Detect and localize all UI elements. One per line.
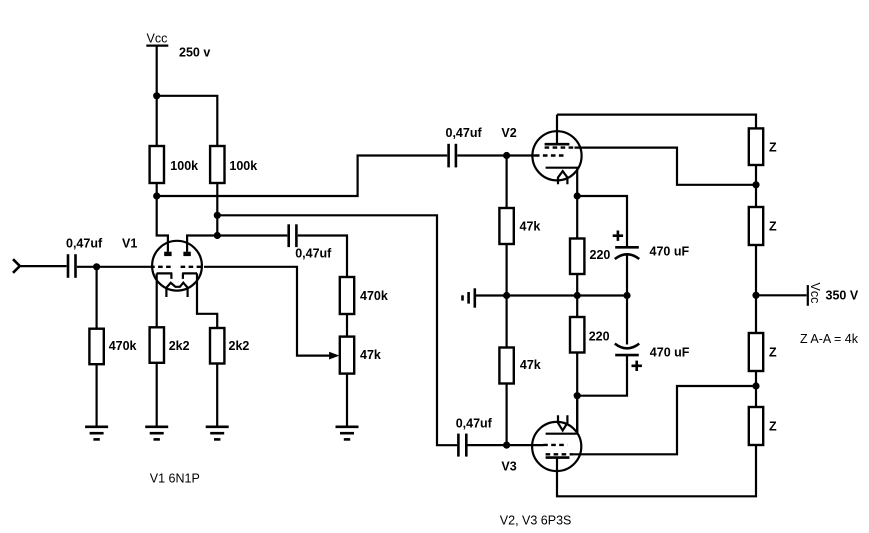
wire V3 cap junction to grid [468,444,544,446]
anode V2 (plate bar) [545,143,570,146]
heater V1 [166,283,187,297]
resistor 470k (input) [89,329,136,365]
cathode V3 [546,396,578,434]
wire rail to bottom cap [626,296,628,345]
svg-text:V2: V2 [501,126,516,140]
capacitor 0,47uf (V2 coupling) [446,126,483,167]
wire V2 anode stem [556,115,558,145]
svg-text:V2, V3 6P3S: V2, V3 6P3S [500,514,572,528]
tube V3 envelope [532,422,581,471]
triode V1 envelope [152,241,202,291]
anode b (V1 right plate) [183,252,190,256]
input connector [13,259,20,273]
wire V2 screen to UL tap [575,148,757,185]
svg-text:Z: Z [769,346,777,360]
wire Z3-Z4 [755,371,757,407]
wire left 100k bottom [156,183,158,196]
svg-text:0,47uf: 0,47uf [456,417,493,431]
chassis ground (middle) [463,288,475,307]
power Vcc 250v terminal [146,32,210,60]
wire rail to lower 47k [506,296,508,348]
wire 470k-47k [346,314,348,337]
wire 220 to rail [576,274,578,296]
svg-text:47k: 47k [360,348,381,362]
node rail-220 [574,292,581,299]
wire V2 grid column [506,156,508,209]
svg-text:470k: 470k [109,339,137,353]
svg-text:350 V: 350 V [826,289,859,303]
wire 47k to V3 grid [506,384,508,446]
resistor 470k (feedback) [340,277,388,314]
cathode b (V1 right) [182,273,197,279]
wire V2 cathode to top cap [577,196,627,246]
wire cathode b to 2k2 [197,273,217,328]
svg-text:470 uF: 470 uF [650,346,690,360]
wire V2 anode to Z1 [557,115,756,129]
svg-text:Z: Z [769,420,777,434]
winding Z1 [749,128,777,165]
resistor 47k (V3 grid) [499,348,540,384]
wire left anode riser [157,196,168,252]
wire Vcc top rail [157,96,218,146]
svg-text:Z: Z [769,220,777,234]
wire to 470k grid resistor [95,267,97,329]
svg-text:470 uF: 470 uF [650,244,690,258]
node rail-cap [623,292,630,299]
svg-text:V1: V1 [122,237,137,251]
wire 47k to ground [346,374,348,426]
capacitor 0,47uf (feedback) [289,224,332,260]
resistor 220 (V3 cathode) [570,317,610,353]
wire 47k to rail [506,244,508,296]
heater V3 [558,415,567,430]
svg-text:Z: Z [769,141,777,155]
wire Z2-Z3 [755,245,757,333]
grid V2 (dashed) [535,154,566,156]
resistor 47k (feedback) [340,337,381,374]
wire cap to 470k [298,236,347,278]
anode V3 (plate bar) [546,456,570,459]
wire center tap to Vcc [756,294,807,296]
resistor 2k2 (right) [210,328,249,364]
wire cap to V1 grid [77,266,150,268]
node left anode junction [153,192,160,199]
node right anode junction [214,232,221,239]
wire V2 cathode column [576,196,578,239]
wire 2k2 to ground [156,363,158,426]
anode a (V1 left plate) [164,252,171,256]
resistor 100k (left) [150,146,199,183]
power Vcc 350V terminal [808,283,859,306]
node center tap [752,292,759,299]
svg-text:100k: 100k [229,159,257,173]
node rail-47k [503,292,510,299]
wire cap to V2 grid [457,154,535,156]
node V3 grid junction [503,442,510,449]
capacitor 0,47uf (V3 coupling) [456,417,493,457]
svg-text:0,47uf: 0,47uf [66,237,103,251]
capacitor 470uF (top) [613,231,690,260]
wire to V2 coupling cap [157,156,448,197]
cathode a (V1 left) [157,273,173,279]
svg-text:47k: 47k [520,358,541,372]
grid V3 (dashed) [543,444,567,446]
ground (feedback divider) [336,427,359,440]
svg-text:470k: 470k [360,289,388,303]
wire right 100k bottom [216,183,218,236]
svg-text:220: 220 [590,248,611,262]
svg-text:220: 220 [589,330,610,344]
grid V1 (dashed) [150,266,204,268]
screen grid V3 (dashed) [546,453,573,455]
svg-text:2k2: 2k2 [169,339,190,353]
wire to middle cap [217,234,287,236]
svg-text:Vcc: Vcc [147,32,168,46]
svg-text:47k: 47k [520,220,541,234]
wire 2k2 to ground [216,364,218,427]
svg-text:Z A-A = 4k: Z A-A = 4k [800,332,859,346]
svg-text:0,47uf: 0,47uf [446,126,483,140]
resistor 100k (right) [210,146,257,183]
wire to V3 coupling cap [217,215,457,445]
wire bottom cap to V3 cathode node [577,355,627,396]
ground (input) [85,427,108,440]
wire input to cap [20,265,67,267]
wire feedback tap with arrow [204,267,339,360]
wire 470k to ground [95,364,97,426]
wire rail to lower 220 [576,296,578,318]
wire Vcc stem [156,46,158,146]
tube V2 envelope [532,131,581,180]
ground (cathode a) [145,427,168,440]
winding Z4 [749,407,777,445]
wire ground rail [475,294,627,296]
svg-text:Vcc: Vcc [808,283,822,304]
svg-text:2k2: 2k2 [229,339,250,353]
capacitor 0,47uf (input) [66,237,103,278]
node UL tap top [752,181,759,188]
node V2 cathode junction [574,192,581,199]
wire Z4 to V3 anode [557,445,756,496]
screen grid V2 (dashed) [545,146,575,148]
capacitor 470uF (bottom) [615,344,690,371]
wire 220 to V3 cathode node [576,353,578,434]
svg-text:100k: 100k [170,159,198,173]
wire cathode a to 2k2 [156,273,158,327]
node UL tap bottom [752,382,759,389]
heater V2 [558,171,567,184]
winding Z3 [749,333,777,371]
resistor 47k (V2 grid) [499,208,540,244]
node V3 feed junction [214,212,221,219]
wire V3 screen to UL tap [573,386,757,454]
wire Z1-Z2 [755,165,757,207]
winding Z2 [749,207,777,245]
wire right anode riser [187,236,217,252]
svg-text:V3: V3 [501,460,516,474]
node input grid junction [93,263,100,270]
svg-text:0,47uf: 0,47uf [295,247,332,261]
node V3 cathode junction [574,392,581,399]
svg-text:250 v: 250 v [179,46,210,60]
resistor 2k2 (left) [150,327,190,363]
svg-text:V1 6N1P: V1 6N1P [150,472,200,486]
wire top cap to rail [626,255,628,296]
resistor 220 (V2 cathode) [570,239,610,275]
node V2 grid junction [503,152,510,159]
ground (cathode b) [206,427,229,440]
cathode V2 [546,168,578,196]
node Vcc rail junction [153,92,160,99]
